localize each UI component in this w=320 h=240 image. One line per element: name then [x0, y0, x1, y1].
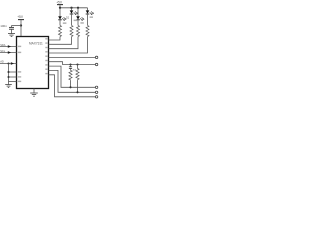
resistor R6 pull-up — [76, 65, 79, 93]
ground (bus) — [5, 85, 12, 88]
svg-text:SDA: SDA — [0, 43, 6, 47]
label R4 — [90, 16, 93, 18]
svg-text:AD: AD — [0, 60, 4, 64]
wire gnd bus — [8, 64, 10, 85]
wire R3 to pin P2 — [49, 37, 79, 49]
svg-text:SCL: SCL — [0, 49, 6, 53]
node VCC junction — [20, 24, 22, 26]
wire INT input — [0, 63, 17, 65]
IC U1 MAX7311 — [17, 37, 49, 89]
wire AD2 — [9, 81, 17, 83]
terminal circle SCL — [95, 91, 97, 93]
pin arrow SCL — [8, 51, 11, 54]
wire AD1 — [9, 76, 17, 78]
node rail j2 — [70, 7, 72, 9]
resistor R1 — [59, 25, 62, 36]
wire IC GND pin — [33, 89, 35, 93]
wire R4 to pin P3 — [49, 37, 88, 53]
node rail j1 — [59, 7, 61, 9]
svg-text:100n: 100n — [0, 24, 7, 28]
svg-text:+5V: +5V — [17, 15, 24, 19]
svg-text:+5V: +5V — [56, 1, 63, 5]
terminal circle INT — [95, 56, 97, 58]
wire VCC stem — [20, 26, 22, 37]
label R2 — [74, 20, 77, 22]
ground (IC) — [30, 93, 38, 96]
node R6 bottom — [76, 91, 78, 93]
resistor R2 — [70, 25, 73, 36]
wire R1 to pin P0 — [49, 37, 61, 40]
resistor R5 pull-up — [69, 65, 72, 88]
node rail j3 — [77, 7, 79, 9]
svg-text:MAX7311: MAX7311 — [29, 42, 43, 46]
node R6 top — [76, 63, 78, 65]
label R3 — [80, 22, 83, 24]
node R5 bottom — [69, 86, 71, 88]
power +5V symbol left — [18, 20, 24, 26]
resistor R4 — [86, 25, 89, 36]
LED D3 — [76, 8, 84, 26]
wire SCL L-path — [49, 70, 96, 92]
node gnd bus top — [7, 62, 9, 64]
capacitor C1 — [9, 26, 14, 34]
wire +5V line — [49, 62, 96, 65]
wire SCL input — [0, 52, 17, 54]
terminal circle SDA — [95, 86, 97, 88]
wire SDA L-path — [49, 66, 96, 87]
wire GND L-path — [49, 75, 96, 97]
LED D4 — [86, 8, 94, 26]
terminal circle GND — [95, 96, 97, 98]
wire R2 to pin P1 — [49, 37, 72, 45]
pin arrow SDA — [8, 45, 11, 48]
resistor R3 — [77, 25, 80, 36]
wire LED rail — [60, 7, 88, 9]
label R1 — [63, 22, 67, 24]
wire SDA input — [0, 46, 17, 48]
LED D2 — [70, 8, 78, 26]
pin arrow INT — [11, 62, 14, 65]
wire AD0 — [9, 71, 17, 73]
svg-text:D2: D2 — [66, 16, 70, 19]
wire pin INT to terminal — [49, 56, 96, 58]
pin labels right side — [45, 38, 48, 74]
LED D1 — [58, 8, 66, 26]
terminal circle +5V — [95, 63, 97, 65]
ground (C1) — [8, 34, 15, 37]
power +5V symbol right — [57, 5, 63, 8]
node R5 top — [69, 63, 71, 65]
wire cap rail — [12, 25, 22, 27]
